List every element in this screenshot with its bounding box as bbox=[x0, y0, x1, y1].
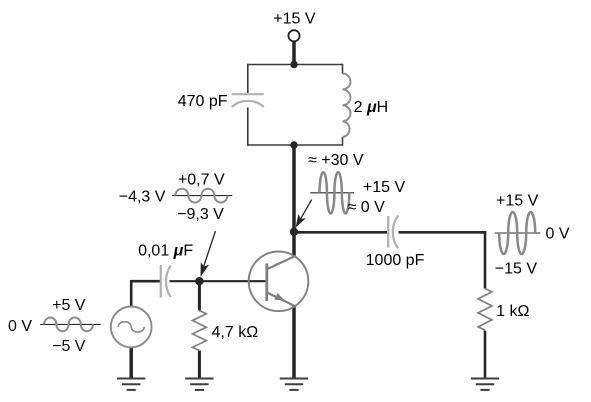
svg-text:+5 V: +5 V bbox=[52, 297, 86, 314]
svg-text:1 kΩ: 1 kΩ bbox=[496, 303, 529, 320]
svg-text:0 V: 0 V bbox=[8, 318, 32, 335]
svg-text:−15 V: −15 V bbox=[495, 261, 538, 278]
svg-text:+15 V: +15 V bbox=[496, 192, 539, 209]
svg-text:1000 pF: 1000 pF bbox=[366, 252, 425, 269]
svg-text:−4,3 V: −4,3 V bbox=[119, 188, 166, 205]
svg-text:+0,7 V: +0,7 V bbox=[178, 172, 225, 189]
svg-text:2 μH: 2 μH bbox=[354, 99, 389, 116]
svg-text:470 pF: 470 pF bbox=[178, 93, 228, 110]
svg-text:0 V: 0 V bbox=[546, 226, 570, 243]
svg-text:+15 V: +15 V bbox=[363, 179, 406, 196]
svg-text:≈ 0 V: ≈ 0 V bbox=[348, 199, 386, 216]
svg-text:−9,3 V: −9,3 V bbox=[177, 206, 224, 223]
svg-text:≈ +30 V: ≈ +30 V bbox=[308, 152, 364, 169]
svg-text:+15 V: +15 V bbox=[273, 11, 316, 28]
svg-text:0,01 μF: 0,01 μF bbox=[138, 242, 193, 259]
svg-text:4,7 kΩ: 4,7 kΩ bbox=[212, 324, 259, 341]
svg-text:−5 V: −5 V bbox=[52, 338, 86, 355]
